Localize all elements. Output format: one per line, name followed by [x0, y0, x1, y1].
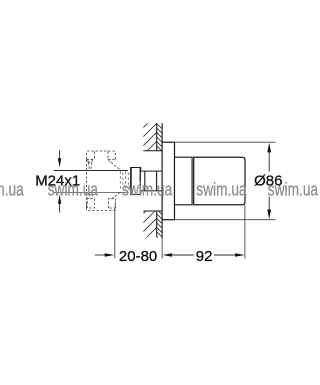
svg-text:20-80: 20-80	[119, 248, 157, 265]
bottom-right chamfer diagonal	[111, 192, 120, 199]
diameter 86 dimension line segments	[268, 151, 270, 211]
M24x1 spindle pipe top outline	[54, 170, 128, 172]
dimension 20-80 tail line	[95, 254, 106, 256]
wall rough face line (left, two segments around opening)	[156, 123, 158, 237]
bottom neck verticals	[89, 194, 91, 199]
diameter 86 extension line top	[175, 141, 276, 143]
handle grip cylinder	[194, 157, 245, 205]
top-left union box	[88, 159, 92, 162]
dimension 92 left arrowhead	[163, 253, 173, 256]
watermark row swim.ua	[0, 180, 319, 200]
svg-text:92: 92	[196, 248, 213, 265]
shaft joint line 2	[156, 171, 158, 191]
svg-text:swim.ua: swim.ua	[122, 180, 173, 200]
wall finished face line (right)	[161, 123, 163, 238]
wall section hatching, upper outer band	[143, 123, 156, 151]
dimension 20-80 right arrowhead	[105, 253, 115, 256]
escutcheon flange (diameter 86)	[162, 142, 174, 220]
mounting nut B	[130, 167, 141, 195]
dimension 92 right arrowhead	[235, 253, 245, 256]
svg-text:swim.ua: swim.ua	[196, 180, 247, 200]
valve body bottom edge	[87, 202, 116, 211]
diameter 86 extension line bottom	[175, 219, 276, 221]
M24x1 down arrowhead	[58, 158, 61, 167]
extension line from grip front to dimension line	[244, 205, 246, 259]
valve body top edge with side edges	[87, 151, 116, 159]
hidden joint verticals inside spindle pipe (dashed)	[120, 171, 128, 191]
concealed valve body (hidden, dashed)	[87, 151, 121, 211]
shaft sleeve through wall	[140, 171, 162, 191]
dimension 92 line right segment	[214, 254, 236, 256]
wall section hatching, lower outer band	[143, 211, 156, 238]
shaft joint line 1	[144, 171, 146, 191]
extension line from wall face down to dimension line	[161, 239, 163, 259]
diameter 86 down arrowhead	[267, 210, 271, 220]
extension line from valve body face to dimension line	[114, 208, 116, 259]
wall section hatching, lower inner band (chevron)	[157, 211, 162, 238]
svg-text:swim.ua: swim.ua	[0, 180, 25, 200]
trim sleeve	[175, 157, 193, 205]
top-right step	[109, 159, 111, 162]
wall opening bottom edge	[143, 210, 162, 212]
top-right chamfer diagonal	[111, 162, 120, 170]
valve body left edge	[86, 159, 88, 209]
wall opening top edge	[143, 150, 162, 152]
bottom-right port square	[109, 198, 116, 208]
top port base ticks	[87, 158, 95, 160]
top-left converging neck	[88, 162, 89, 170]
top port inner verticals	[93, 151, 95, 159]
M24x1 spindle pipe bottom outline	[54, 192, 128, 194]
M24x1 up arrowhead	[58, 194, 61, 203]
svg-text:swim.ua: swim.ua	[48, 180, 99, 200]
svg-text:swim.ua: swim.ua	[268, 180, 319, 200]
bottom-left port square	[87, 198, 94, 208]
dimension 92 line left segment	[172, 254, 194, 256]
diameter 86 up arrowhead	[267, 143, 271, 153]
M24x1 dimension arrow tails	[59, 150, 61, 212]
wall section hatching, upper inner band (chevron)	[157, 123, 162, 150]
